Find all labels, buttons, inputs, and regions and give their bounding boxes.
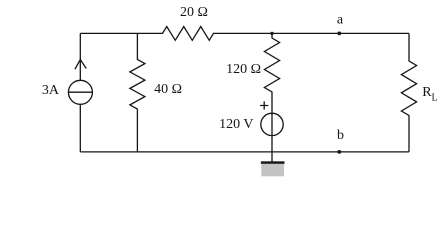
svg-text:b: b	[337, 128, 344, 143]
svg-text:40 Ω: 40 Ω	[154, 82, 182, 97]
svg-text:120 Ω: 120 Ω	[226, 62, 261, 77]
svg-text:120 V: 120 V	[219, 117, 253, 132]
svg-text:a: a	[337, 13, 344, 28]
svg-text:3A: 3A	[42, 83, 60, 98]
svg-text:20 Ω: 20 Ω	[180, 5, 208, 20]
